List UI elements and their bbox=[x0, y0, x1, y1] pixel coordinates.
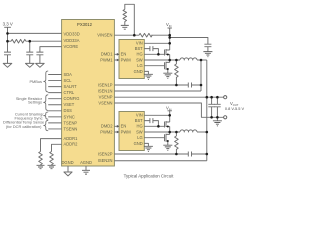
svg-text:Typical Application Circuit: Typical Application Circuit bbox=[124, 174, 175, 179]
svg-text:ISEN2N: ISEN2N bbox=[98, 158, 113, 163]
svg-text:PWM2: PWM2 bbox=[100, 129, 113, 134]
svg-text:VIN: VIN bbox=[136, 113, 143, 118]
svg-text:VIN: VIN bbox=[166, 22, 172, 28]
svg-text:GND: GND bbox=[134, 141, 143, 146]
svg-text:PX3012: PX3012 bbox=[77, 22, 93, 27]
svg-text:SYNC: SYNC bbox=[64, 114, 75, 119]
svg-text:(for DCR calibration): (for DCR calibration) bbox=[6, 124, 42, 129]
svg-text:VDD33A: VDD33A bbox=[64, 38, 80, 43]
svg-text:BST: BST bbox=[135, 46, 143, 51]
svg-text:SCL: SCL bbox=[64, 78, 73, 83]
svg-text:GND: GND bbox=[134, 69, 143, 74]
svg-text:LG: LG bbox=[137, 63, 142, 68]
svg-text:PWM: PWM bbox=[121, 129, 132, 134]
svg-text:HG: HG bbox=[137, 52, 143, 57]
svg-text:Settings: Settings bbox=[28, 100, 42, 105]
svg-text:ISEN1N: ISEN1N bbox=[98, 88, 113, 93]
svg-text:TSENP: TSENP bbox=[64, 120, 78, 125]
svg-text:EN: EN bbox=[121, 52, 127, 57]
svg-text:ADDR1: ADDR1 bbox=[64, 136, 79, 141]
svg-text:VSENN: VSENN bbox=[98, 100, 112, 105]
svg-text:VIN: VIN bbox=[166, 106, 172, 112]
svg-text:VSET: VSET bbox=[64, 102, 75, 107]
svg-text:PWM: PWM bbox=[121, 57, 132, 62]
svg-text:CTRL: CTRL bbox=[64, 90, 75, 95]
svg-text:BST: BST bbox=[135, 118, 143, 123]
svg-text:CONFIG: CONFIG bbox=[64, 96, 80, 101]
svg-text:EN: EN bbox=[121, 124, 127, 129]
svg-text:0.8 V-5.5 V: 0.8 V-5.5 V bbox=[225, 106, 245, 111]
svg-text:DMD2: DMD2 bbox=[101, 124, 113, 129]
svg-text:HG: HG bbox=[137, 124, 143, 129]
svg-text:SDA: SDA bbox=[64, 72, 73, 77]
svg-text:ADDR2: ADDR2 bbox=[64, 142, 79, 147]
svg-text:DSS: DSS bbox=[64, 108, 73, 113]
svg-text:3.3 V: 3.3 V bbox=[3, 22, 13, 27]
svg-text:ISEN1P: ISEN1P bbox=[98, 82, 113, 87]
svg-text:AGND: AGND bbox=[80, 160, 92, 165]
svg-text:VSENP: VSENP bbox=[99, 95, 113, 100]
svg-text:PWM1: PWM1 bbox=[100, 57, 113, 62]
svg-text:ISEN2P: ISEN2P bbox=[98, 152, 113, 157]
svg-text:DMD1: DMD1 bbox=[101, 52, 113, 57]
svg-text:VDD33D: VDD33D bbox=[64, 31, 80, 36]
svg-text:TSENN: TSENN bbox=[64, 126, 78, 131]
svg-text:VIN: VIN bbox=[136, 41, 143, 46]
svg-text:SALRT: SALRT bbox=[64, 84, 78, 89]
svg-text:LG: LG bbox=[137, 135, 142, 140]
svg-text:VINSEN: VINSEN bbox=[97, 33, 112, 38]
svg-text:SW: SW bbox=[136, 57, 143, 62]
svg-text:VCORE: VCORE bbox=[64, 44, 79, 49]
svg-text:SW: SW bbox=[136, 129, 143, 134]
svg-text:DGND: DGND bbox=[61, 160, 73, 165]
svg-text:PMBus: PMBus bbox=[29, 79, 42, 84]
